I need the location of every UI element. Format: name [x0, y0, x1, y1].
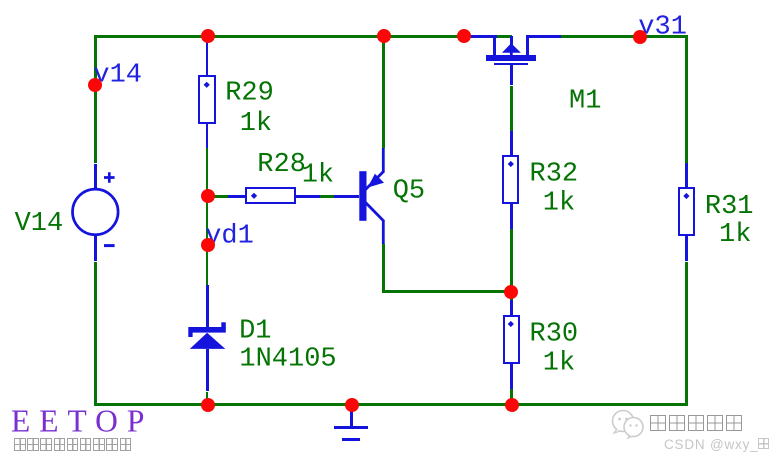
voltage source V14 lead top: [94, 164, 97, 190]
wire right rail vertical upper: [685, 35, 688, 163]
resistor R32 body: [502, 155, 519, 204]
resistor R28 body: [245, 187, 295, 204]
transistor Q5 emitter lead blue: [382, 221, 385, 245]
svg-text:R31: R31: [705, 192, 754, 222]
wire right rail vertical lower: [685, 262, 688, 406]
node dot vd1: [201, 238, 215, 252]
resistor R31 lead top: [685, 163, 688, 187]
mosfet M1 source arrow stem: [510, 52, 513, 56]
mosfet M1 bulk vertical: [526, 35, 529, 55]
resistor R31 lead bottom: [685, 236, 688, 261]
wire Q5 collector vertical green: [382, 35, 385, 148]
mosfet M1 drain lead horizontal: [471, 35, 497, 38]
node dot bottom left: [201, 398, 215, 412]
wire node to R30 bottom green: [510, 389, 513, 403]
resistor R29 body: [198, 75, 215, 123]
resistor R30 body: [503, 315, 520, 364]
wire top rail left segment: [94, 35, 471, 38]
transistor Q5 collector diagonal: [366, 171, 385, 190]
mosfet M1 gate thin bar: [494, 63, 528, 66]
watermark csdn handle: [664, 437, 769, 452]
voltage source V14 minus sign: [104, 244, 115, 247]
wire R32 bottom to node green: [510, 229, 513, 301]
watermark EETOP chinese line: [14, 438, 133, 456]
resistor R29 lead top: [206, 39, 209, 75]
node dot top R29: [201, 29, 215, 43]
svg-text:R32: R32: [530, 160, 579, 190]
wire left rail vertical below V14: [94, 262, 97, 406]
node dot emitter junction: [504, 285, 518, 299]
node dot v14: [88, 78, 102, 92]
mosfet M1 gate lead down: [510, 64, 513, 85]
voltage source V14 lead bottom: [94, 235, 97, 262]
wire bottom rail: [94, 403, 688, 406]
ground stub: [350, 405, 353, 427]
watermark csdn author name blocks: [650, 415, 745, 433]
node dot top collector: [377, 29, 391, 43]
voltage source V14 plus sign: [104, 172, 115, 183]
resistor R32 lead bottom: [510, 204, 513, 228]
wire base row green segment near vd1 node: [208, 195, 229, 198]
wire R29 column green below D1: [206, 392, 209, 405]
watermark wechat logo: [606, 407, 646, 441]
resistor R30 lead top: [510, 300, 513, 315]
svg-text:1k: 1k: [543, 349, 575, 379]
transistor Q5 collector arrow: [368, 174, 384, 188]
resistor R28 diamond: [251, 193, 257, 199]
resistor R29 diamond: [204, 82, 210, 88]
resistor R32 diamond: [508, 161, 514, 167]
wire Q5 emitter horizontal to node: [382, 290, 513, 293]
wire left rail vertical: [94, 35, 97, 164]
resistor R28 lead right: [296, 195, 320, 198]
svg-text:1k: 1k: [302, 160, 334, 190]
resistor R31 body: [678, 187, 695, 236]
diode D1 lead top: [206, 285, 209, 328]
svg-text:R30: R30: [530, 320, 579, 350]
mosfet M1 drain vertical: [493, 36, 496, 55]
wire M1 gate to R32 green: [510, 86, 513, 131]
wire R29 column green below R29 to vd1 and D1: [206, 148, 209, 285]
resistor R28 lead left: [228, 195, 246, 198]
mosfet M1 channel thick bar: [486, 55, 536, 61]
transistor Q5 emitter diagonal: [366, 203, 385, 222]
svg-text:1N4105: 1N4105: [239, 344, 336, 374]
resistor R30 lead bottom: [510, 364, 513, 389]
diode D1 triangle: [190, 333, 226, 349]
node dot base junction: [201, 189, 215, 203]
mosfet M1 source vertical stub: [510, 36, 513, 45]
mosfet M1 source arrow: [502, 43, 521, 53]
transistor Q5 base bar: [359, 171, 366, 221]
resistor R31 diamond: [683, 193, 689, 199]
svg-text:1k: 1k: [719, 220, 751, 250]
transistor Q5 base lead: [334, 195, 359, 198]
diode D1 lead bottom: [206, 349, 209, 392]
svg-text:V14: V14: [15, 209, 64, 239]
ground bar 1: [334, 426, 368, 429]
svg-text:1k: 1k: [240, 109, 272, 139]
voltage source V14 circle: [73, 189, 119, 235]
svg-text:R28: R28: [257, 150, 306, 180]
svg-text:M1: M1: [569, 86, 601, 116]
svg-text:R29: R29: [225, 79, 274, 109]
resistor R29 lead bottom: [206, 124, 209, 148]
node dot ground: [345, 398, 359, 412]
wire Q5 emitter vertical green: [382, 244, 385, 291]
svg-text:EETOP: EETOP: [11, 404, 153, 439]
mosfet M1 bulk lead horizontal: [526, 35, 561, 38]
node dot v31: [633, 30, 647, 44]
node dot bottom right: [505, 398, 519, 412]
svg-text:1k: 1k: [543, 189, 575, 219]
diode D1 zener right tick: [221, 322, 226, 327]
transistor Q5 collector lead blue: [382, 148, 385, 172]
wire base row green segment before Q5: [320, 195, 335, 198]
wire top rail between M1 drain and source: [496, 35, 512, 38]
ground bar 2: [342, 438, 361, 441]
diode D1 zener left tick: [188, 332, 192, 337]
resistor R30 diamond: [508, 321, 514, 327]
diode D1 zener bar: [188, 327, 226, 333]
svg-text:D1: D1: [239, 317, 271, 347]
resistor R32 lead top: [510, 131, 513, 156]
node dot top M1: [457, 29, 471, 43]
wire top rail right segment to v31 corner: [561, 35, 688, 38]
svg-text:Q5: Q5: [393, 177, 425, 207]
